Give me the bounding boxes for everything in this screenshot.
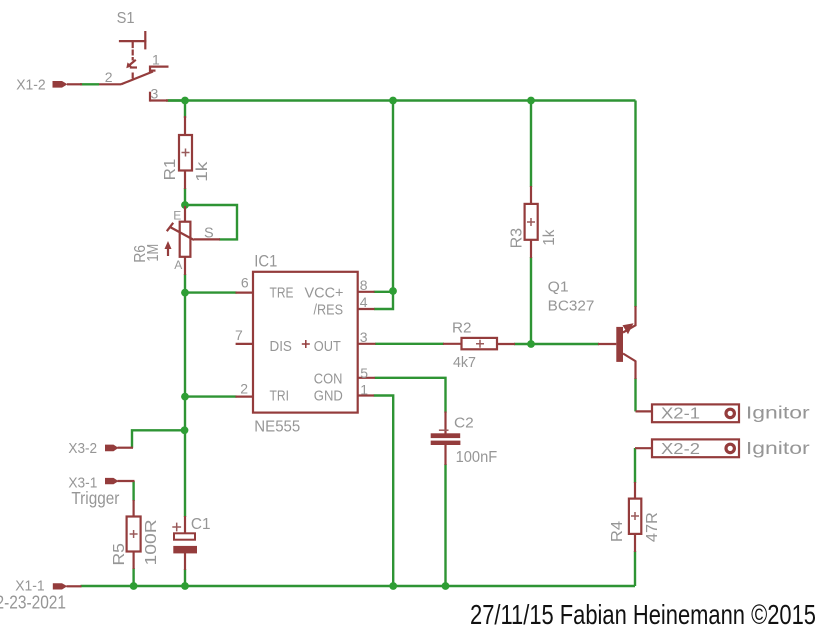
svg-text:1k: 1k xyxy=(541,229,558,246)
svg-text:DIS: DIS xyxy=(270,339,292,355)
svg-text:2: 2 xyxy=(105,69,113,85)
svg-text:/RES: /RES xyxy=(314,303,344,319)
capacitor C2 xyxy=(431,412,461,466)
IC1 pin 3 stub xyxy=(358,343,376,345)
svg-text:X1-2: X1-2 xyxy=(16,76,46,93)
svg-text:3: 3 xyxy=(151,85,159,101)
svg-text:CON: CON xyxy=(314,371,343,387)
resistor R5 xyxy=(127,500,141,569)
wire R3 column upper xyxy=(530,101,532,188)
potentiometer R6 labels xyxy=(132,209,214,272)
resistor R4 labels xyxy=(609,512,661,542)
svg-text:S: S xyxy=(204,226,214,242)
wire VCC column to IC pins 8 and 4 xyxy=(374,101,393,310)
svg-text:OUT: OUT xyxy=(314,339,341,355)
wire pin1 GND drop xyxy=(374,396,394,587)
resistor R3 xyxy=(525,186,538,258)
IC1 pin 8 stub xyxy=(358,291,375,293)
svg-text:E: E xyxy=(173,209,181,223)
wire R3 column lower xyxy=(530,257,532,344)
svg-text:2-23-2021: 2-23-2021 xyxy=(0,592,66,613)
wire pin6 branch xyxy=(185,291,237,293)
connector X2-1 xyxy=(636,403,810,423)
svg-text:TRI: TRI xyxy=(270,388,290,404)
wire C1 to GND rail xyxy=(184,569,186,586)
date text xyxy=(0,592,66,613)
svg-text:5: 5 xyxy=(360,365,368,381)
svg-text:Trigger: Trigger xyxy=(71,488,119,508)
svg-text:6: 6 xyxy=(241,275,249,291)
connector X3-2 xyxy=(68,440,133,457)
IC1 pin 5 stub xyxy=(358,377,375,379)
resistor R4 xyxy=(629,482,641,552)
footer copyright text xyxy=(470,599,816,630)
wire C2 to GND rail xyxy=(444,464,446,586)
svg-text:8: 8 xyxy=(360,277,368,293)
svg-text:C2: C2 xyxy=(454,415,474,432)
potentiometer R6 xyxy=(165,206,221,275)
wire X3-1 to R5 xyxy=(132,481,134,501)
switch S1 xyxy=(99,31,169,102)
wire R1 column xyxy=(184,101,186,207)
connector X1-1 xyxy=(15,578,81,595)
capacitor C2 labels xyxy=(454,415,497,467)
wire X2-2 to R4 xyxy=(634,448,636,483)
resistor R1 xyxy=(179,116,192,189)
wire X3-2 branch xyxy=(132,430,185,447)
svg-text:R5: R5 xyxy=(111,543,128,566)
resistor R5 labels xyxy=(111,519,160,565)
svg-text:27/11/15 Fabian Heinemann ©201: 27/11/15 Fabian Heinemann ©2015 xyxy=(470,599,816,630)
svg-text:VCC+: VCC+ xyxy=(305,286,344,302)
svg-text:1k: 1k xyxy=(194,161,211,182)
wire S1 pin3 to rail xyxy=(166,99,186,101)
IC1 pin 4 stub xyxy=(358,308,375,310)
wire pin2 branch xyxy=(185,395,237,397)
wire GND bottom rail xyxy=(81,585,636,587)
svg-text:IC1: IC1 xyxy=(254,252,277,270)
IC1 pin numbers xyxy=(235,275,368,398)
svg-text:1: 1 xyxy=(152,52,160,68)
wire R4 to GND rail xyxy=(634,551,636,586)
wire VCC top rail xyxy=(168,99,636,101)
connector X1-2 xyxy=(16,76,82,93)
resistor R2 labels xyxy=(452,321,476,371)
svg-text:R4: R4 xyxy=(609,521,626,542)
svg-text:R1: R1 xyxy=(162,158,179,180)
IC1 origin cross xyxy=(302,340,310,348)
svg-text:4: 4 xyxy=(360,294,368,310)
svg-text:TRE: TRE xyxy=(270,286,294,302)
svg-text:NE555: NE555 xyxy=(254,419,300,436)
wire R5 to GND rail xyxy=(132,568,134,586)
IC1 pin 7 stub xyxy=(236,343,253,345)
wire pin5 to C2 xyxy=(375,378,446,413)
wire Q1 collector to X2-1 xyxy=(634,378,636,411)
wire R6 bottom to TRI column xyxy=(184,274,186,517)
svg-text:100R: 100R xyxy=(143,519,160,565)
wire X1-2 net xyxy=(80,83,99,85)
svg-text:S1: S1 xyxy=(117,10,135,27)
svg-text:R3: R3 xyxy=(509,228,526,249)
svg-text:X2-1: X2-1 xyxy=(661,406,700,423)
svg-text:Ignitor: Ignitor xyxy=(746,403,810,423)
svg-text:3: 3 xyxy=(360,329,368,345)
svg-text:BC327: BC327 xyxy=(548,299,595,315)
transistor Q1 labels xyxy=(548,279,595,314)
svg-text:C1: C1 xyxy=(191,516,211,533)
IC U1 NE555 body xyxy=(253,272,358,413)
wire VCC right drop to Q1 emitter xyxy=(634,101,636,308)
svg-text:100nF: 100nF xyxy=(456,449,498,466)
svg-text:7: 7 xyxy=(235,327,243,343)
resistor R1 labels xyxy=(162,158,211,181)
IC1 pin 6 stub xyxy=(236,292,254,294)
resistor R3 labels xyxy=(509,228,559,249)
svg-text:1: 1 xyxy=(360,382,368,398)
IC1 pin 1 stub xyxy=(358,394,374,396)
svg-text:Ignitor: Ignitor xyxy=(746,438,810,458)
transistor Q1 xyxy=(598,306,636,379)
IC1 labels xyxy=(254,252,343,435)
connector X3-1 xyxy=(68,475,134,508)
svg-text:X2-2: X2-2 xyxy=(661,441,700,458)
IC1 pin 2 stub xyxy=(236,396,254,398)
wire R2 to Q1 base xyxy=(514,343,599,345)
connector X2-2 xyxy=(635,438,810,458)
svg-text:X3-2: X3-2 xyxy=(68,440,97,457)
capacitor C1 label xyxy=(191,516,211,533)
switch S1 labels xyxy=(105,10,160,101)
svg-text:2: 2 xyxy=(240,381,248,397)
capacitor C1 xyxy=(172,516,197,570)
svg-text:4k7: 4k7 xyxy=(453,355,476,371)
svg-text:R2: R2 xyxy=(452,321,472,337)
svg-text:1M: 1M xyxy=(145,244,162,262)
svg-text:47R: 47R xyxy=(644,512,661,542)
wire OUT pin3 to R2 xyxy=(375,343,444,345)
svg-text:GND: GND xyxy=(314,388,343,404)
svg-text:Q1: Q1 xyxy=(548,279,569,295)
svg-text:A: A xyxy=(174,258,182,272)
resistor R2 xyxy=(443,338,515,349)
wire R6 wiper loop xyxy=(185,205,237,239)
